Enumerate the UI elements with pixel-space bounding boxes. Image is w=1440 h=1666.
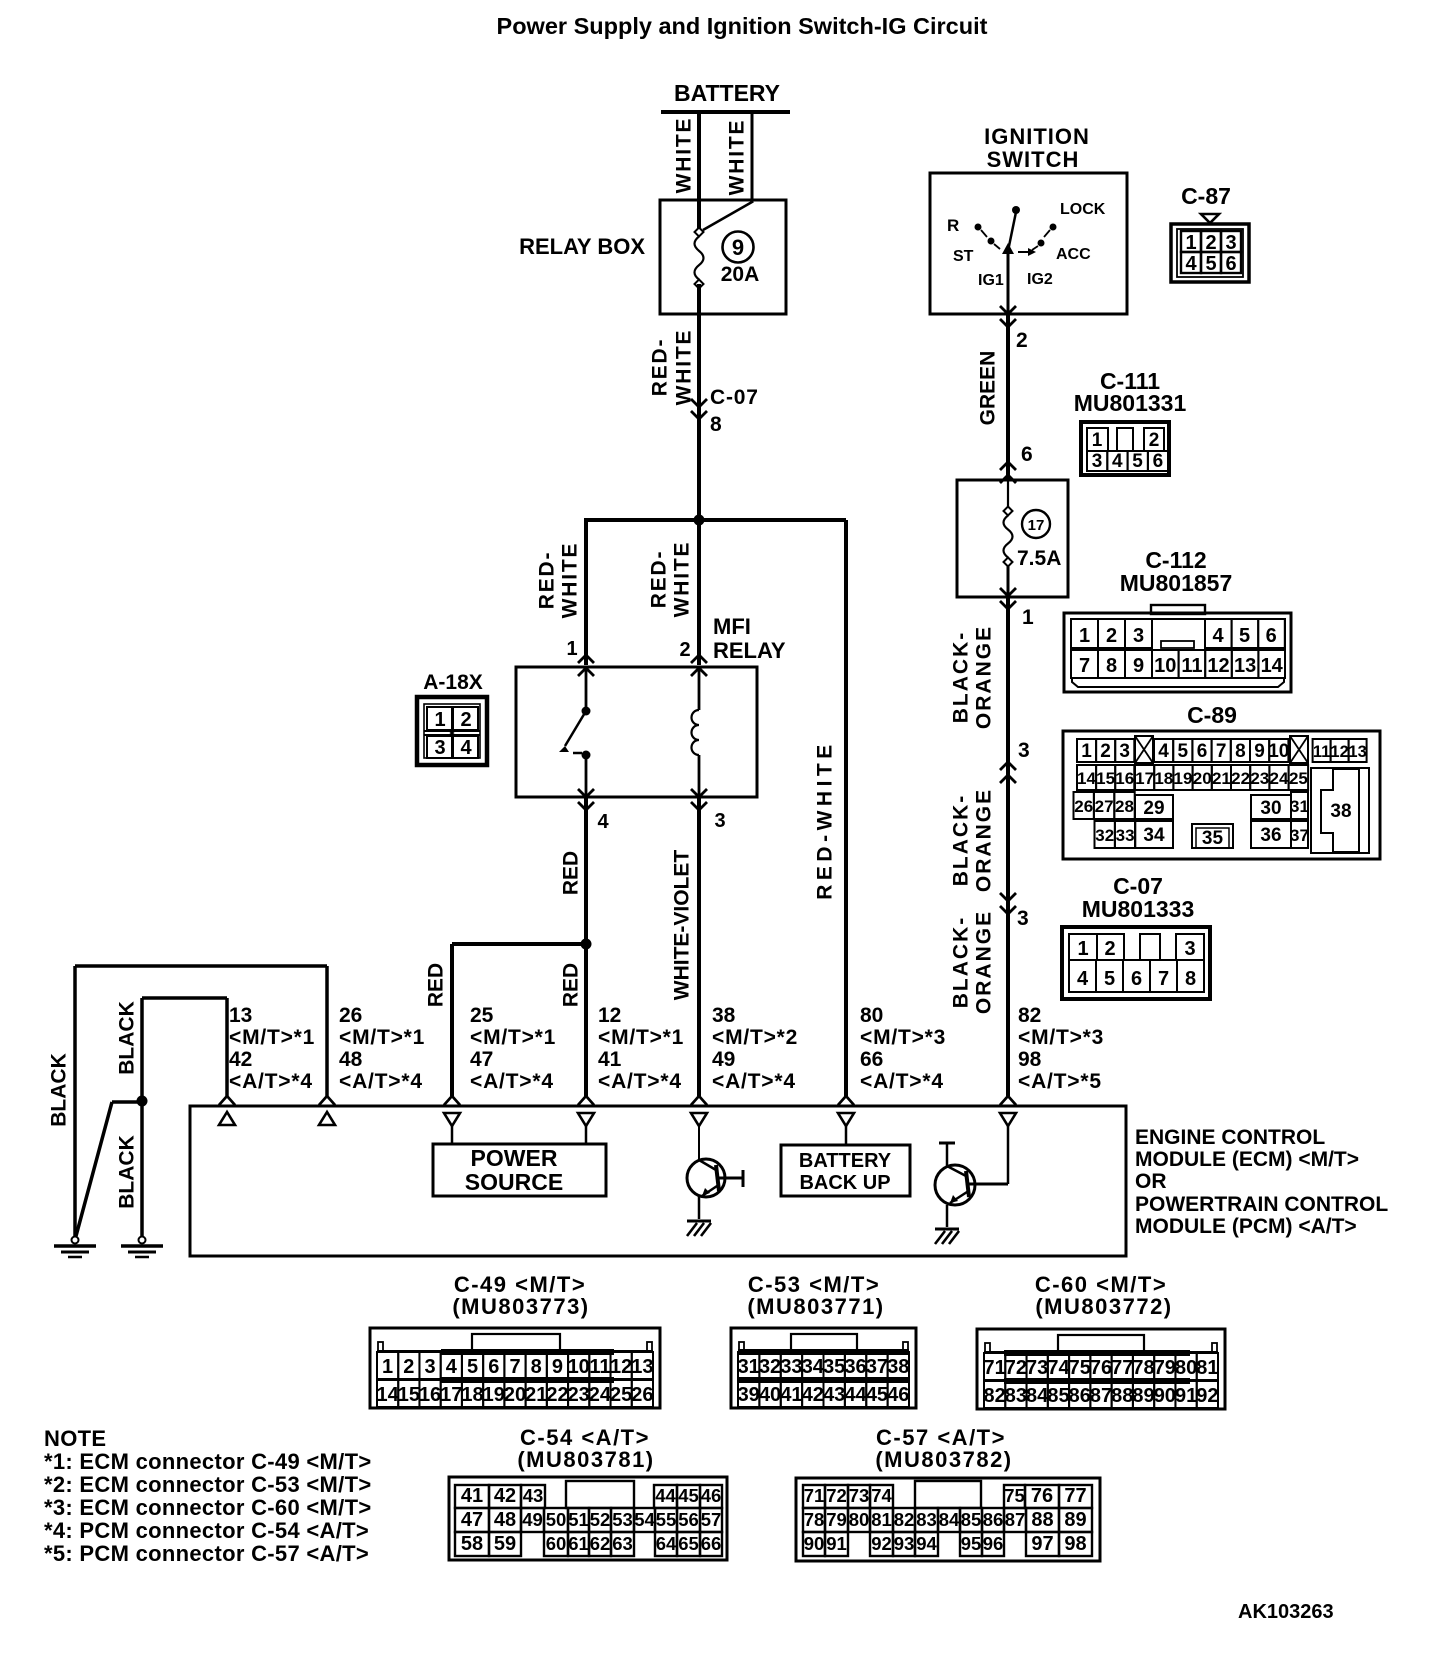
svg-text:64: 64 [656, 1533, 677, 1554]
fuse box [957, 480, 1068, 597]
svg-text:RELAY: RELAY [713, 638, 786, 663]
pin 2 label [679, 639, 690, 661]
connector C-60 [977, 1329, 1225, 1409]
wire ignition switch IG output [1007, 251, 1010, 314]
connector C-89 label [1187, 702, 1237, 728]
connector C-07 inline arrows lower [1000, 893, 1016, 914]
wire label BLACK middle lower [116, 1135, 139, 1209]
svg-text:74: 74 [871, 1485, 892, 1506]
svg-text:5: 5 [1104, 968, 1115, 990]
svg-text:(MU803772): (MU803772) [1035, 1294, 1172, 1319]
svg-text:25: 25 [470, 1004, 494, 1027]
connector C-112 label [1120, 547, 1233, 596]
svg-text:16: 16 [1115, 769, 1134, 788]
wire BLACK-ORANGE to ECM pin 82/98 [1006, 597, 1010, 1096]
svg-text:54: 54 [634, 1509, 655, 1530]
connector C-49 label [452, 1272, 589, 1319]
pin labels 38/49 [712, 1004, 798, 1093]
svg-text:NOTE: NOTE [44, 1426, 106, 1451]
svg-text:51: 51 [568, 1509, 589, 1530]
svg-text:7.5A: 7.5A [1017, 547, 1061, 570]
connector C-54 [449, 1477, 727, 1560]
svg-text:26: 26 [631, 1384, 653, 1406]
svg-text:81: 81 [871, 1509, 892, 1530]
svg-text:24: 24 [589, 1384, 612, 1406]
battery label [674, 80, 780, 106]
ground hatch 1 [687, 1221, 711, 1236]
relay box label [519, 234, 645, 259]
svg-text:3: 3 [1184, 938, 1195, 960]
svg-text:MODULE (ECM) <M/T>: MODULE (ECM) <M/T> [1135, 1148, 1359, 1171]
svg-text:*4: PCM connector C-54 <A/T>: *4: PCM connector C-54 <A/T> [44, 1518, 369, 1543]
svg-text:42: 42 [494, 1485, 516, 1507]
wire label RED upper [560, 851, 583, 895]
transistor output driver 1 [687, 1159, 743, 1219]
svg-text:6: 6 [1266, 625, 1277, 647]
svg-text:<A/T>*4: <A/T>*4 [470, 1070, 554, 1093]
svg-text:24: 24 [1270, 769, 1289, 788]
svg-text:47: 47 [461, 1509, 483, 1531]
svg-text:15: 15 [398, 1384, 420, 1406]
svg-text:41: 41 [461, 1485, 483, 1507]
svg-text:43: 43 [823, 1384, 845, 1406]
svg-text:89: 89 [1064, 1509, 1086, 1531]
svg-text:50: 50 [546, 1509, 567, 1530]
connector C-87 orientation triangle [1201, 214, 1219, 223]
svg-text:73: 73 [1026, 1357, 1048, 1379]
svg-text:4: 4 [1077, 968, 1089, 990]
node ground junction [137, 1096, 148, 1107]
svg-text:13: 13 [1234, 655, 1256, 677]
ignition switch positions [947, 201, 1106, 289]
svg-text:3: 3 [1018, 739, 1030, 762]
connector C-54 label [517, 1425, 654, 1472]
ECM terminal pin 38/49 [691, 1096, 707, 1160]
svg-text:48: 48 [494, 1509, 516, 1531]
svg-text:42: 42 [802, 1384, 824, 1406]
svg-text:49: 49 [522, 1509, 543, 1530]
svg-text:1: 1 [1022, 606, 1034, 629]
svg-text:28: 28 [1115, 797, 1134, 816]
svg-text:93: 93 [894, 1533, 915, 1554]
fuse 17 symbol (7.5A) [1004, 480, 1013, 597]
wire BLACK to ECM pin 13/42 [225, 998, 229, 1096]
svg-text:8: 8 [1185, 968, 1196, 990]
svg-text:87: 87 [1005, 1509, 1026, 1530]
svg-text:C-87: C-87 [1181, 183, 1231, 209]
wire label RED-WHITE upper [649, 329, 696, 406]
svg-text:38: 38 [712, 1004, 736, 1027]
MFI relay switch contact [559, 667, 591, 797]
svg-text:22: 22 [546, 1384, 568, 1406]
svg-text:RED: RED [560, 851, 583, 895]
svg-text:14: 14 [1077, 769, 1096, 788]
note block [44, 1426, 371, 1566]
ECM description [1135, 1126, 1388, 1238]
svg-text:BLACK: BLACK [116, 1135, 139, 1209]
svg-text:<M/T>*3: <M/T>*3 [1018, 1026, 1104, 1049]
svg-text:1: 1 [566, 638, 577, 660]
ECM box [190, 1106, 1126, 1256]
svg-text:83: 83 [916, 1509, 937, 1530]
svg-text:62: 62 [590, 1533, 611, 1554]
svg-text:ORANGE: ORANGE [973, 788, 996, 892]
wire RED-WHITE relay box to junction [697, 284, 701, 520]
connector A-18X [417, 697, 487, 765]
connector C-87 [1171, 224, 1249, 282]
svg-text:9: 9 [1133, 655, 1144, 677]
ignition switch rotary contacts [975, 206, 1057, 256]
svg-text:POWER: POWER [471, 1145, 558, 1171]
svg-text:92: 92 [871, 1533, 892, 1554]
wire battery to relay-box switch blade (WHITE) [751, 112, 754, 203]
svg-text:5: 5 [1205, 253, 1216, 275]
svg-text:MODULE (PCM) <A/T>: MODULE (PCM) <A/T> [1135, 1215, 1357, 1238]
svg-text:76: 76 [1031, 1485, 1053, 1507]
svg-text:C-89: C-89 [1187, 702, 1237, 728]
wire BLACK second horizontal [142, 996, 227, 1000]
svg-text:9: 9 [1254, 741, 1265, 762]
svg-text:66: 66 [860, 1048, 883, 1071]
MFI relay box [516, 667, 757, 797]
svg-text:98: 98 [1064, 1533, 1086, 1555]
svg-text:3: 3 [1119, 741, 1130, 762]
svg-text:RED-WHITE: RED-WHITE [814, 740, 837, 900]
switch blade diagonal in relay box [703, 202, 752, 230]
fuse 17 circle [1022, 510, 1050, 538]
svg-text:95: 95 [961, 1533, 982, 1554]
connector C-60 label [1035, 1272, 1173, 1319]
pin 6 label [1021, 443, 1033, 466]
wire RED-WHITE to MFI relay pin 1 [584, 518, 588, 665]
svg-text:56: 56 [678, 1509, 699, 1530]
ECM terminal pin 25/47 [444, 1096, 460, 1144]
svg-text:87: 87 [1090, 1385, 1112, 1407]
wire RED from MFI relay pin 4 [584, 797, 588, 1096]
svg-text:3: 3 [1225, 232, 1236, 254]
svg-text:19: 19 [1174, 769, 1193, 788]
svg-text:35: 35 [1202, 828, 1224, 849]
svg-text:31: 31 [1290, 797, 1309, 816]
svg-text:4: 4 [597, 811, 609, 833]
battery bus line [661, 110, 790, 114]
svg-text:ORANGE: ORANGE [973, 625, 996, 729]
svg-text:<M/T>*1: <M/T>*1 [339, 1026, 425, 1049]
svg-text:92: 92 [1196, 1385, 1218, 1407]
svg-text:WHITE-VIOLET: WHITE-VIOLET [671, 850, 694, 1001]
svg-text:9: 9 [732, 235, 744, 260]
svg-text:8: 8 [531, 1356, 542, 1378]
connector C-111 [1081, 422, 1169, 475]
svg-text:20: 20 [504, 1384, 526, 1406]
svg-text:RED: RED [425, 963, 448, 1007]
svg-text:30: 30 [1260, 798, 1281, 819]
svg-text:75: 75 [1004, 1485, 1025, 1506]
pin 3 label [714, 810, 725, 832]
wire label BLACK-ORANGE 3 [950, 910, 996, 1014]
svg-text:48: 48 [339, 1048, 363, 1071]
wire label RED-WHITE vertical [814, 740, 837, 900]
svg-text:SOURCE: SOURCE [465, 1169, 563, 1195]
svg-text:ENGINE CONTROL: ENGINE CONTROL [1135, 1126, 1325, 1149]
svg-text:60: 60 [546, 1533, 567, 1554]
svg-text:10: 10 [1268, 741, 1289, 762]
pin 8 label [710, 413, 722, 436]
node junction RED-WHITE [694, 515, 705, 526]
svg-text:3: 3 [1133, 625, 1144, 647]
svg-text:ORANGE: ORANGE [973, 910, 996, 1014]
svg-text:4: 4 [460, 737, 472, 759]
svg-text:86: 86 [1069, 1385, 1091, 1407]
svg-text:20: 20 [1193, 769, 1212, 788]
svg-text:(MU803771): (MU803771) [747, 1294, 884, 1319]
svg-text:80: 80 [860, 1004, 883, 1027]
svg-text:19: 19 [483, 1384, 505, 1406]
svg-text:55: 55 [656, 1509, 677, 1530]
connector C-53 [731, 1328, 916, 1408]
svg-text:3: 3 [1017, 907, 1029, 930]
svg-text:<M/T>*3: <M/T>*3 [860, 1026, 946, 1049]
svg-text:18: 18 [1154, 769, 1173, 788]
svg-text:23: 23 [1250, 769, 1269, 788]
svg-text:6: 6 [1197, 741, 1208, 762]
svg-text:WHITE: WHITE [671, 541, 694, 618]
svg-text:57: 57 [701, 1509, 722, 1530]
svg-text:2: 2 [1016, 329, 1028, 352]
svg-text:GREEN: GREEN [977, 351, 1000, 426]
svg-text:<A/T>*4: <A/T>*4 [339, 1070, 423, 1093]
svg-text:86: 86 [983, 1509, 1004, 1530]
svg-text:*5: PCM connector C-57 <A/T>: *5: PCM connector C-57 <A/T> [44, 1541, 369, 1566]
svg-text:5: 5 [467, 1356, 478, 1378]
svg-text:7: 7 [1079, 655, 1090, 677]
svg-text:32: 32 [759, 1356, 781, 1378]
svg-text:63: 63 [612, 1533, 633, 1554]
svg-text:7: 7 [509, 1356, 520, 1378]
svg-text:25: 25 [1289, 769, 1308, 788]
svg-text:3: 3 [425, 1356, 436, 1378]
svg-text:77: 77 [1064, 1485, 1086, 1507]
svg-text:29: 29 [1143, 798, 1164, 819]
svg-text:41: 41 [598, 1048, 622, 1071]
fuse 9 circle [723, 232, 754, 263]
wire label WHITE right [726, 119, 749, 196]
svg-text:9: 9 [552, 1356, 563, 1378]
svg-text:2: 2 [1106, 625, 1117, 647]
svg-text:23: 23 [568, 1384, 590, 1406]
svg-text:33: 33 [1116, 826, 1135, 845]
svg-text:2: 2 [1149, 430, 1160, 451]
svg-text:2: 2 [1205, 232, 1216, 254]
svg-text:58: 58 [461, 1533, 483, 1555]
wire RED-WHITE junction to MFI relay pin 2 [697, 520, 701, 665]
svg-text:<M/T>*1: <M/T>*1 [598, 1026, 684, 1049]
svg-text:<A/T>*4: <A/T>*4 [712, 1070, 796, 1093]
wire RED-WHITE to ECM pin 80/66 [844, 520, 848, 1096]
svg-text:44: 44 [844, 1384, 867, 1406]
svg-text:32: 32 [1095, 826, 1114, 845]
svg-text:39: 39 [738, 1384, 760, 1406]
svg-text:C-07: C-07 [710, 386, 759, 409]
ignition switch exit arrows [1000, 306, 1016, 327]
connector C-07 inline symbol [691, 399, 707, 419]
pin labels 13/42 [229, 1004, 315, 1093]
wire label BLACK left [48, 1053, 71, 1127]
wire stub to diagonal [112, 1100, 142, 1104]
connector C-89 [1063, 731, 1380, 859]
svg-text:1: 1 [1092, 430, 1103, 451]
svg-text:40: 40 [759, 1384, 781, 1406]
transistor output driver 2 [935, 1143, 1008, 1227]
svg-text:18: 18 [461, 1384, 483, 1406]
ECM terminal pin 82/98 [1000, 1096, 1016, 1184]
svg-text:2: 2 [403, 1356, 414, 1378]
wire RED to ECM pin 25/47 [450, 944, 454, 1096]
svg-text:6: 6 [1153, 451, 1164, 472]
svg-text:84: 84 [1026, 1385, 1049, 1407]
svg-text:82: 82 [984, 1385, 1006, 1407]
svg-text:1: 1 [1077, 938, 1088, 960]
svg-text:14: 14 [376, 1384, 399, 1406]
svg-text:27: 27 [1095, 797, 1114, 816]
svg-text:MU801331: MU801331 [1074, 390, 1187, 416]
svg-text:36: 36 [844, 1356, 866, 1378]
svg-text:4: 4 [1212, 625, 1224, 647]
ground symbol left [54, 1237, 96, 1258]
MFI relay pin2 entry arrows [691, 655, 707, 676]
svg-text:76: 76 [1090, 1357, 1112, 1379]
svg-text:66: 66 [701, 1533, 722, 1554]
svg-text:*2: ECM connector C-53 <M/T>: *2: ECM connector C-53 <M/T> [44, 1472, 371, 1497]
svg-text:45: 45 [866, 1384, 888, 1406]
connector C-07 label [1082, 873, 1195, 922]
svg-text:45: 45 [678, 1485, 699, 1506]
svg-text:41: 41 [780, 1384, 802, 1406]
svg-text:21: 21 [525, 1384, 547, 1406]
svg-text:73: 73 [849, 1485, 870, 1506]
wire label RED left [425, 963, 448, 1007]
svg-text:5: 5 [1132, 451, 1143, 472]
connector C-87 label [1181, 183, 1231, 209]
svg-text:26: 26 [339, 1004, 362, 1027]
svg-text:89: 89 [1132, 1385, 1154, 1407]
svg-text:10: 10 [1154, 655, 1176, 677]
svg-text:BLACK-: BLACK- [950, 916, 973, 1008]
svg-text:7: 7 [1158, 968, 1169, 990]
wire label RED-WHITE left branch [536, 542, 582, 619]
svg-text:<A/T>*4: <A/T>*4 [598, 1070, 682, 1093]
svg-text:2: 2 [679, 639, 690, 661]
svg-text:43: 43 [523, 1485, 544, 1506]
svg-text:3: 3 [1092, 451, 1103, 472]
wire label RED right [560, 963, 583, 1007]
svg-text:BLACK-: BLACK- [950, 794, 973, 886]
svg-text:82: 82 [894, 1509, 915, 1530]
svg-text:RED: RED [560, 963, 583, 1007]
wire BLACK upper horizontal [75, 964, 327, 968]
fuse box entry arrows [1000, 462, 1016, 483]
fuse box exit arrows [1000, 588, 1016, 609]
svg-text:4: 4 [1185, 253, 1197, 275]
ECM terminal pin 26/48 [319, 1096, 335, 1125]
svg-text:59: 59 [494, 1533, 516, 1555]
relay box [660, 200, 786, 314]
svg-text:44: 44 [655, 1485, 676, 1506]
svg-text:77: 77 [1111, 1357, 1133, 1379]
svg-text:17: 17 [440, 1384, 462, 1406]
wire horizontal RED-WHITE bus [586, 518, 846, 522]
svg-text:15: 15 [1096, 769, 1115, 788]
svg-text:4: 4 [446, 1356, 458, 1378]
wire label WHITE left [673, 117, 696, 194]
fuse 17 rating 7.5A [1017, 547, 1061, 570]
pin 3 label upper [1018, 739, 1030, 762]
svg-text:85: 85 [961, 1509, 982, 1530]
svg-text:75: 75 [1069, 1357, 1091, 1379]
svg-text:1: 1 [1081, 741, 1092, 762]
wire BLACK middle vertical [140, 998, 144, 1237]
svg-text:14: 14 [1261, 655, 1284, 677]
svg-text:<A/T>*4: <A/T>*4 [860, 1070, 944, 1093]
svg-text:R: R [947, 216, 959, 235]
wire WHITE-VIOLET from MFI relay pin 3 [697, 797, 701, 1096]
svg-text:ST: ST [953, 248, 974, 265]
svg-text:BLACK-: BLACK- [950, 631, 973, 723]
MFI relay coil [691, 667, 699, 797]
svg-text:WHITE: WHITE [673, 117, 696, 194]
svg-text:2: 2 [1104, 938, 1115, 960]
fuse 9 rating 20A [721, 263, 760, 286]
ECM terminal pin 13/42 [219, 1096, 235, 1125]
svg-text:80: 80 [1175, 1357, 1197, 1379]
svg-text:8: 8 [710, 413, 722, 436]
svg-text:12: 12 [1330, 743, 1348, 761]
svg-text:37: 37 [1290, 826, 1309, 845]
ECM terminal pin 80/66 [838, 1096, 854, 1145]
svg-text:MU801333: MU801333 [1082, 896, 1195, 922]
wire label BLACK middle upper [116, 1001, 139, 1075]
svg-text:MFI: MFI [713, 614, 751, 639]
connector C-57 label [875, 1425, 1012, 1472]
svg-text:16: 16 [419, 1384, 441, 1406]
svg-text:6: 6 [1021, 443, 1033, 466]
connector C-112 [1064, 605, 1291, 692]
svg-text:1: 1 [1185, 232, 1196, 254]
svg-text:AK103263: AK103263 [1238, 1601, 1334, 1623]
svg-text:2: 2 [460, 709, 471, 731]
svg-text:BACK UP: BACK UP [799, 1172, 890, 1194]
svg-text:<A/T>*5: <A/T>*5 [1018, 1070, 1102, 1093]
svg-text:72: 72 [826, 1485, 847, 1506]
svg-text:IGNITION: IGNITION [984, 124, 1090, 149]
svg-text:17: 17 [1028, 517, 1045, 534]
connector C-111 label [1074, 368, 1187, 416]
pin labels 80/66 [860, 1004, 946, 1093]
svg-text:4: 4 [1158, 741, 1169, 762]
ignition switch box [930, 173, 1127, 314]
svg-text:81: 81 [1196, 1357, 1218, 1379]
svg-text:25: 25 [610, 1384, 632, 1406]
svg-text:90: 90 [804, 1533, 825, 1554]
svg-text:94: 94 [916, 1533, 937, 1554]
svg-text:13: 13 [1348, 743, 1366, 761]
svg-text:WHITE: WHITE [559, 542, 582, 619]
svg-text:71: 71 [984, 1357, 1006, 1379]
pin labels 82/98 [1018, 1004, 1104, 1093]
svg-text:74: 74 [1047, 1357, 1070, 1379]
svg-text:83: 83 [1005, 1385, 1027, 1407]
svg-text:34: 34 [802, 1356, 825, 1378]
